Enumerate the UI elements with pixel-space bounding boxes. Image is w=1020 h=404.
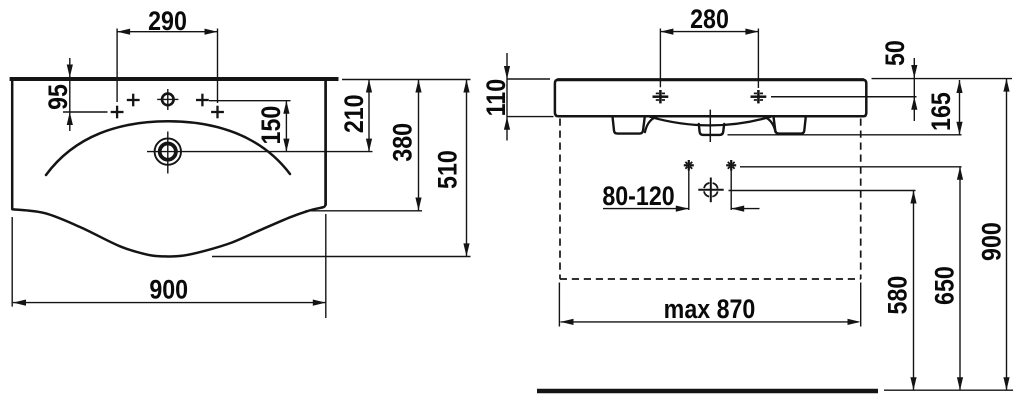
svg-text:50: 50: [881, 40, 911, 66]
svg-text:280: 280: [690, 5, 729, 35]
svg-text:165: 165: [926, 92, 956, 131]
svg-text:290: 290: [148, 6, 187, 36]
svg-text:max 870: max 870: [664, 295, 756, 325]
svg-text:510: 510: [433, 150, 463, 189]
svg-text:95: 95: [44, 84, 74, 110]
svg-text:900: 900: [149, 275, 188, 305]
svg-text:580: 580: [883, 276, 913, 315]
svg-text:80-120: 80-120: [602, 181, 674, 211]
svg-text:650: 650: [930, 266, 960, 305]
svg-text:380: 380: [388, 123, 418, 162]
svg-text:210: 210: [339, 94, 369, 133]
svg-text:110: 110: [481, 79, 511, 116]
svg-text:900: 900: [977, 222, 1007, 261]
svg-text:150: 150: [257, 106, 287, 145]
